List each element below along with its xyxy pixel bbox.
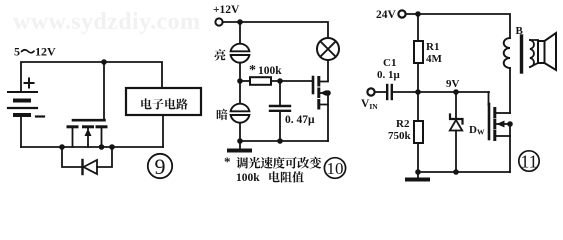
node cap top junction xyxy=(277,78,283,84)
mosfet V2 substrate lead with arrow xyxy=(320,92,328,94)
lamp HL xyxy=(317,38,339,60)
wire lamp to mosfet drain xyxy=(319,60,329,82)
mosfet V1 substrate arrow xyxy=(85,129,92,137)
svg-text:*: * xyxy=(224,154,231,169)
wire pot dark to rail xyxy=(239,123,241,141)
mosfet V3 source stub xyxy=(496,135,510,137)
svg-text:VIN: VIN xyxy=(361,98,378,111)
wire bottom rail circuit 10 xyxy=(240,140,328,142)
zener diode Dw xyxy=(455,92,457,119)
wire pot bright to junction xyxy=(239,63,241,81)
circled number 11 xyxy=(519,151,539,171)
ground xyxy=(239,141,241,149)
node diode return junction xyxy=(109,144,115,150)
wire resistor to cap node xyxy=(271,80,313,82)
pot RP1 bright (split circle) xyxy=(231,44,250,63)
terminal 24V xyxy=(398,10,405,17)
svg-text:R2: R2 xyxy=(396,118,410,130)
battery GB 5~12V xyxy=(8,92,37,115)
svg-text:B: B xyxy=(516,25,524,37)
node rail R2 junction xyxy=(415,169,421,175)
svg-text:*: * xyxy=(249,63,256,78)
pot RP2 dark lead xyxy=(239,81,241,103)
circled number 9 xyxy=(148,154,172,178)
wire top rail circuit 11 xyxy=(406,14,510,38)
node substrate-source junction xyxy=(325,90,331,96)
resistor 100k xyxy=(250,77,271,85)
box electronic circuit xyxy=(126,88,201,115)
node pot top junction xyxy=(237,19,243,25)
mosfet V3 gate wire xyxy=(488,92,490,105)
wire drain to transformer xyxy=(509,68,511,113)
svg-text:5: 5 xyxy=(14,45,20,59)
svg-text:R1: R1 xyxy=(426,41,439,53)
node rail zener junction xyxy=(453,169,459,175)
wire bottom rail circuit 11 xyxy=(418,171,510,173)
svg-text:0. 47μ: 0. 47μ xyxy=(285,114,315,126)
wire diode loop right xyxy=(97,147,112,167)
wire node line 9V xyxy=(393,91,489,93)
mosfet V2 source wire xyxy=(320,105,328,142)
capacitor 0.47u xyxy=(279,81,281,105)
wire top rail circuit 10 xyxy=(223,22,328,38)
battery plus label xyxy=(25,79,34,88)
battery minus label xyxy=(36,115,44,117)
pot RP2 dark (split circle) xyxy=(231,104,250,123)
wire box bottom to rail xyxy=(162,115,164,147)
node R1R2 junction xyxy=(415,89,421,95)
pot RP1 bright lead xyxy=(239,22,241,44)
wire top rail circuit 9 xyxy=(21,62,162,92)
transformer core xyxy=(520,36,523,72)
node rail left junction xyxy=(237,138,243,144)
svg-text:100k: 100k xyxy=(258,65,282,77)
node R1 top junction xyxy=(415,11,421,17)
svg-text:+12V: +12V xyxy=(213,4,240,16)
svg-text:9V: 9V xyxy=(446,78,460,90)
speaker xyxy=(530,40,538,67)
svg-text:www.sydzdiy.com: www.sydzdiy.com xyxy=(13,9,200,35)
resistor R2 xyxy=(417,92,419,121)
label an dark xyxy=(217,109,228,120)
svg-text:4M: 4M xyxy=(426,53,443,65)
svg-text:C1: C1 xyxy=(383,57,396,69)
node drain junction xyxy=(99,144,105,150)
transformer B primary xyxy=(504,38,510,68)
terminal Vin xyxy=(367,88,374,95)
svg-text:11: 11 xyxy=(520,152,537,172)
label liang bright xyxy=(214,49,225,60)
resistor R1 xyxy=(417,14,419,41)
wire battery negative to bottom rail xyxy=(20,115,22,147)
node gate junction xyxy=(101,59,107,65)
ground circuit 11 xyxy=(417,172,419,178)
terminal +12V xyxy=(215,18,222,25)
svg-text:10: 10 xyxy=(327,159,344,178)
mosfet V2 xyxy=(313,77,319,108)
mosfet V3 drain stub xyxy=(496,112,510,114)
svg-text:100k: 100k xyxy=(236,172,260,184)
transformer B secondary xyxy=(530,40,534,67)
svg-text:24V: 24V xyxy=(376,9,397,21)
node zener junction xyxy=(453,89,459,95)
svg-text:750k: 750k xyxy=(388,130,412,142)
mosfet V3 substrate arrow xyxy=(496,123,510,125)
node RC junction xyxy=(237,78,243,84)
svg-text:9: 9 xyxy=(155,154,166,179)
svg-text:DW: DW xyxy=(469,124,485,137)
mosfet V1 gate lead wire xyxy=(103,62,105,119)
mosfet V3 channel xyxy=(493,109,496,140)
capacitor C1 xyxy=(375,91,386,93)
diode VD xyxy=(81,160,83,174)
circled number 10 xyxy=(324,158,345,179)
node source junction xyxy=(59,144,65,150)
label dianzi dianlu xyxy=(141,98,188,109)
wire bottom rail circuit 9 xyxy=(21,146,163,148)
mosfet V1 xyxy=(68,120,106,147)
svg-text:0. 1μ: 0. 1μ xyxy=(377,69,401,81)
wire junction to resistor xyxy=(240,80,250,82)
svg-text:12V: 12V xyxy=(35,45,56,59)
node rail cap junction xyxy=(277,138,283,144)
wire diode loop left xyxy=(62,147,82,167)
